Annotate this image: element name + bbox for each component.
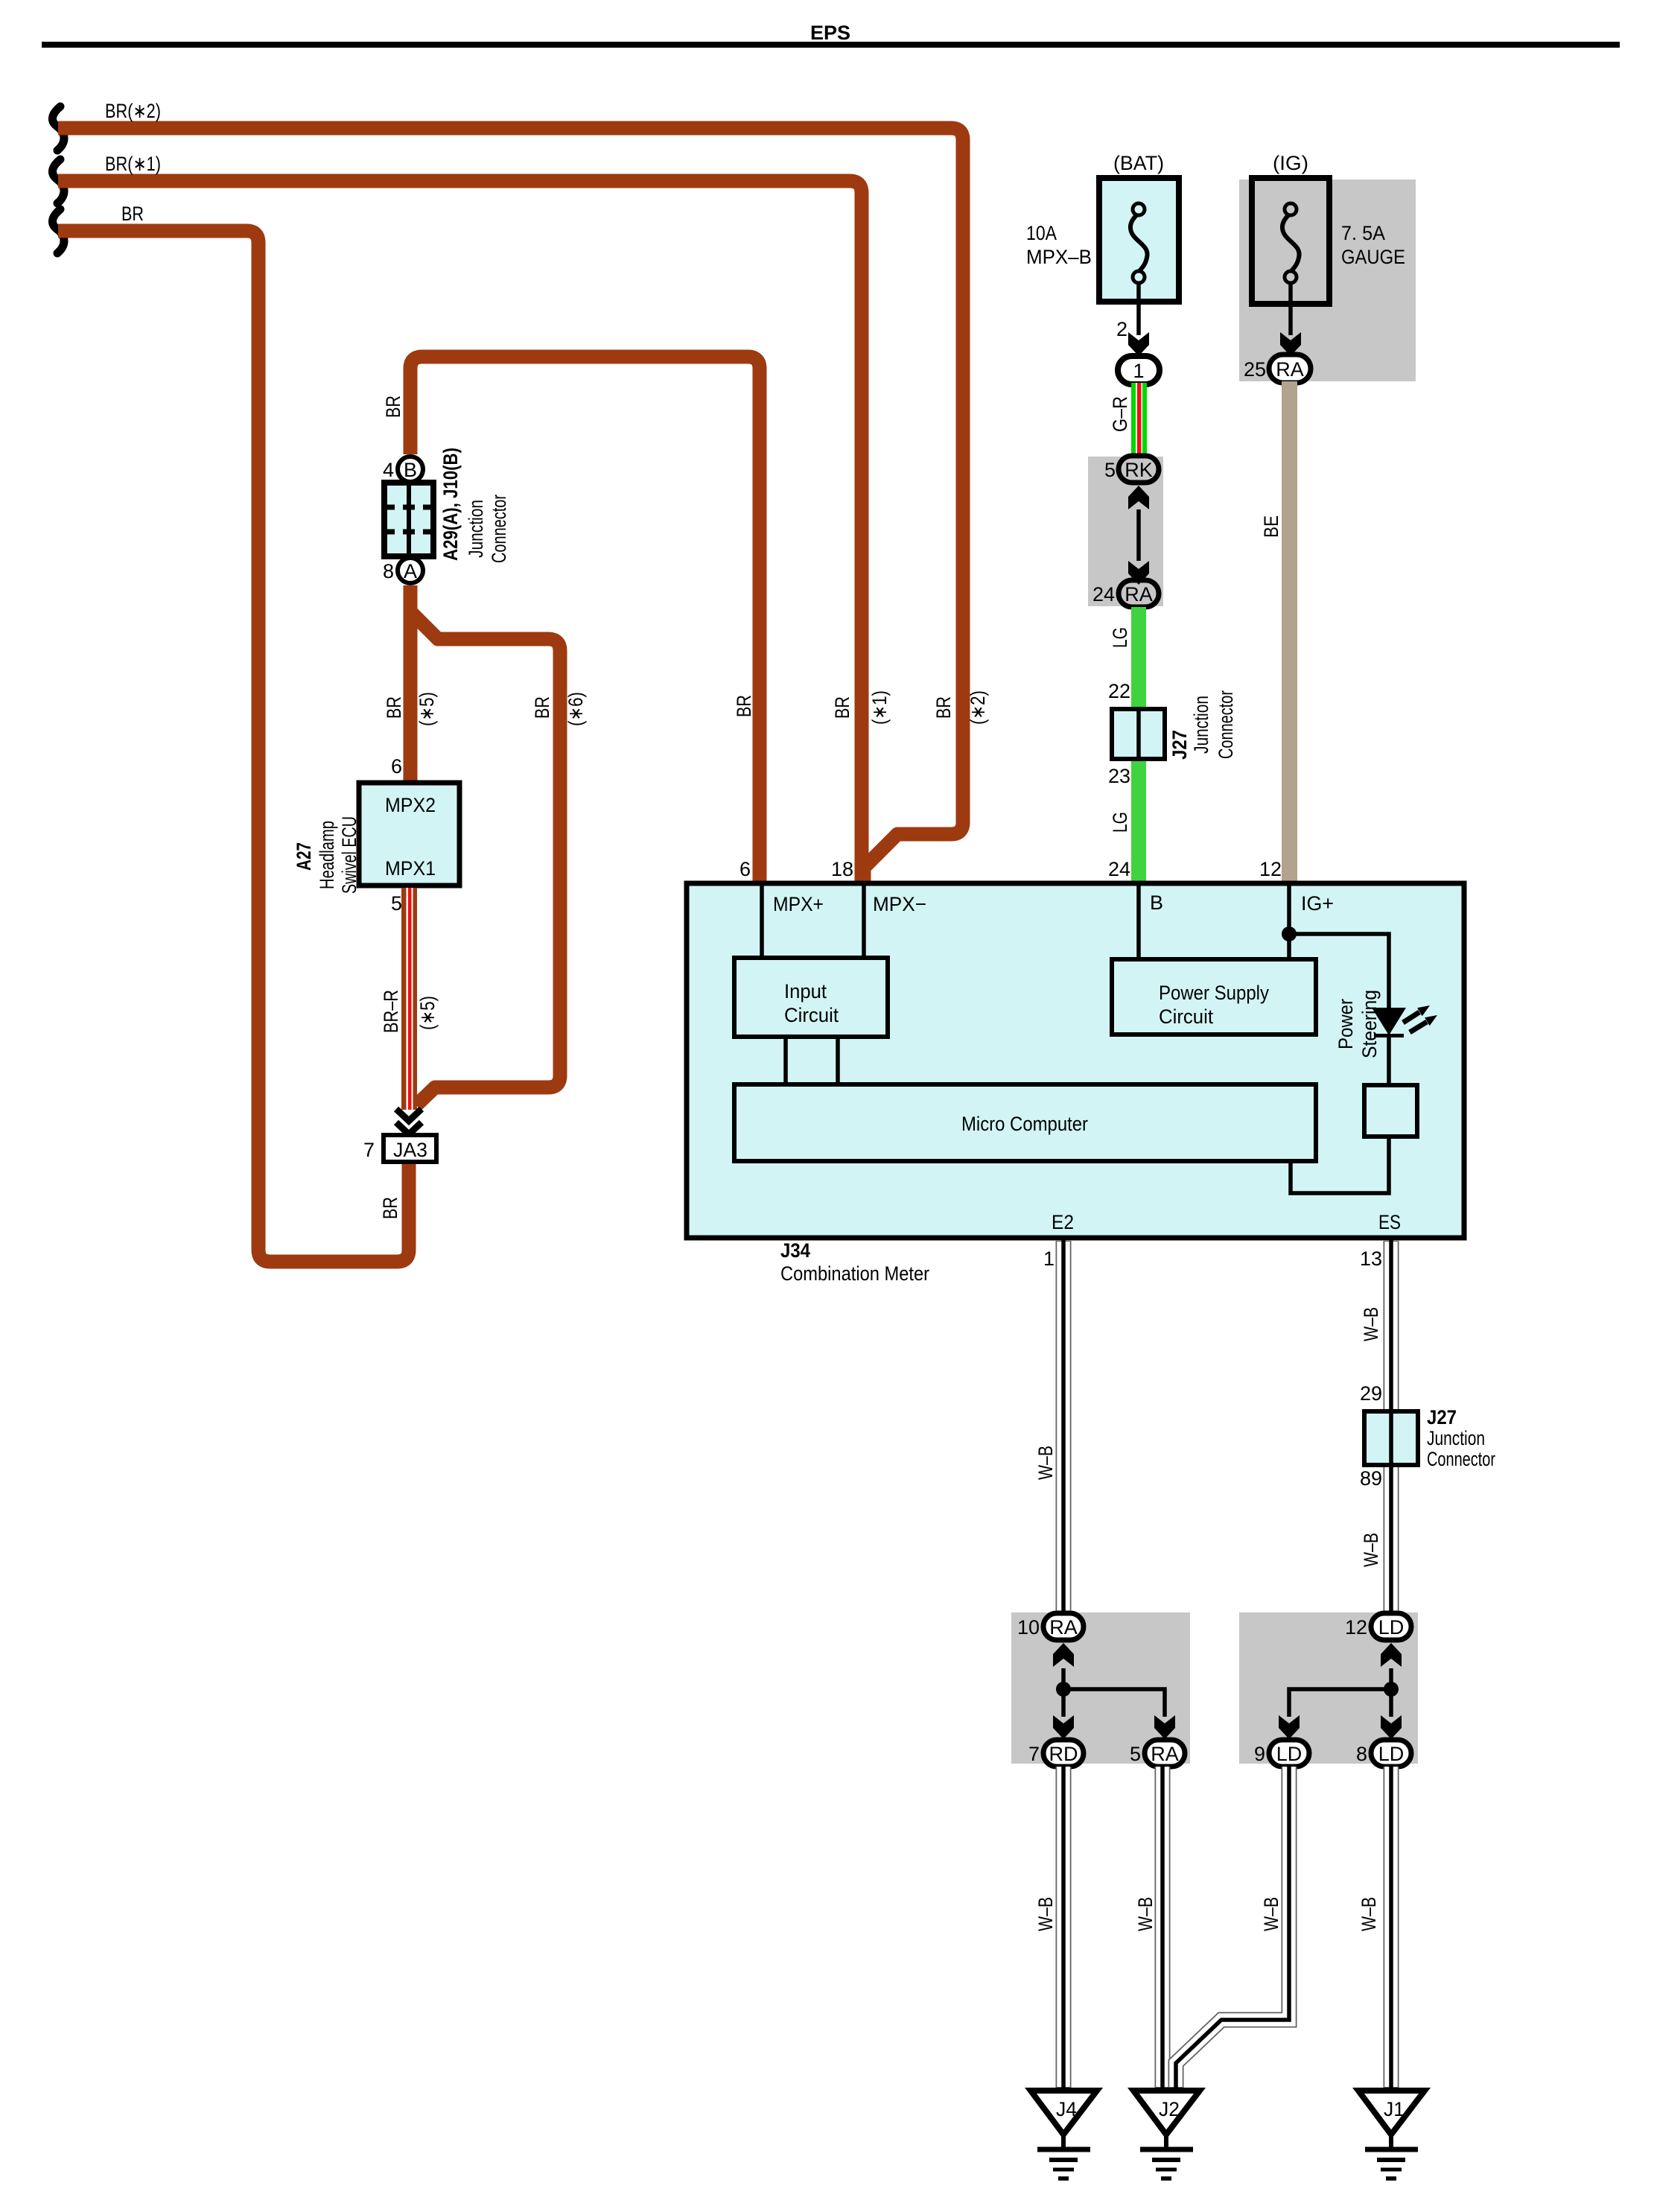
svg-text:9: 9 — [1254, 1743, 1265, 1765]
svg-text:B: B — [1150, 892, 1163, 914]
svg-text:BR(∗2): BR(∗2) — [105, 100, 161, 122]
wire W-B RD7 to ground J4 — [1056, 1767, 1072, 2091]
title rule — [42, 42, 1620, 48]
arrow into connector 1 — [1128, 332, 1149, 356]
wire IG+ pin down with junction node — [1287, 886, 1291, 959]
wire MPX+ pin to input circuit — [760, 886, 764, 958]
svg-text:(∗5): (∗5) — [416, 692, 438, 726]
svg-text:24: 24 — [1108, 858, 1130, 880]
svg-text:Power Supply: Power Supply — [1159, 982, 1269, 1004]
connector oval RA pin 5 — [1130, 1740, 1185, 1767]
svg-text:7: 7 — [1028, 1743, 1040, 1765]
svg-text:Connector: Connector — [1427, 1448, 1495, 1470]
svg-text:Swivel ECU: Swivel ECU — [338, 816, 360, 894]
svg-text:RA: RA — [1276, 358, 1304, 381]
svg-text:8: 8 — [1356, 1743, 1367, 1765]
svg-text:Junction: Junction — [1427, 1427, 1485, 1449]
svg-text:5: 5 — [1130, 1743, 1141, 1765]
wire resistor to micro computer — [1291, 1137, 1389, 1193]
wire BR (*6) branch loop — [411, 612, 560, 1105]
svg-text:BR: BR — [379, 1197, 401, 1219]
svg-text:Steering: Steering — [1358, 990, 1381, 1058]
svg-text:1: 1 — [1043, 1248, 1055, 1270]
gray background IG fuse — [1239, 179, 1416, 381]
svg-text:BR: BR — [121, 203, 144, 225]
junction connector A29(A) J10(B) box — [383, 483, 435, 556]
wire W-B LD9 jog to ground J2 — [1176, 1767, 1289, 2091]
svg-text:A29(A), J10(B): A29(A), J10(B) — [439, 448, 462, 561]
svg-text:RK: RK — [1125, 459, 1153, 481]
svg-text:(∗1): (∗1) — [868, 690, 891, 725]
svg-text:BR: BR — [531, 696, 553, 719]
wire B pin to power supply circuit — [1136, 886, 1141, 959]
svg-text:W–B: W–B — [1034, 1897, 1057, 1931]
svg-text:W–B: W–B — [1260, 1897, 1282, 1931]
svg-text:G–R: G–R — [1109, 396, 1131, 432]
input circuit box — [734, 958, 888, 1037]
svg-text:W–B: W–B — [1358, 1897, 1380, 1931]
wire node to LED branch — [1289, 934, 1389, 1009]
wire break symbol bottom — [52, 209, 64, 253]
wire BR from break down to JA3 pin 7 loop — [58, 231, 409, 1262]
wire MPX- pin to input circuit — [862, 886, 866, 958]
svg-text:MPX–B: MPX–B — [1026, 246, 1092, 268]
LED power steering indicator — [1372, 1005, 1437, 1037]
wires input circuit to micro computer — [783, 1037, 788, 1084]
svg-text:MPX1: MPX1 — [385, 857, 436, 880]
connector JA3 box pin 7 — [363, 1135, 436, 1162]
svg-text:22: 22 — [1108, 680, 1130, 702]
svg-text:BR(∗1): BR(∗1) — [105, 153, 161, 175]
svg-text:Junction: Junction — [1190, 696, 1212, 754]
wire RK to RA — [1136, 509, 1141, 561]
svg-text:W–B: W–B — [1360, 1307, 1382, 1341]
wire W-B from ES pin 13 to LD 12 — [1384, 1238, 1399, 1615]
arrow into RA 25 — [1280, 332, 1301, 356]
svg-text:BR: BR — [383, 696, 405, 719]
ground J1 — [1358, 2091, 1425, 2178]
svg-text:10A: 10A — [1026, 222, 1057, 244]
svg-text:Combination Meter: Combination Meter — [780, 1262, 929, 1285]
connector oval 1 — [1118, 356, 1160, 384]
wire fuse IG to RA — [1288, 283, 1293, 335]
gray background RK/RA connector — [1088, 457, 1163, 606]
svg-text:Junction: Junction — [465, 500, 487, 558]
connector oval RA pin 25 — [1244, 355, 1311, 383]
svg-text:12: 12 — [1259, 858, 1282, 880]
wire G-R — [1131, 383, 1147, 457]
junction connector J27 lower box — [1364, 1411, 1418, 1465]
wire BE from RA 25 to J34 pin 12 — [1282, 381, 1297, 885]
svg-text:A27: A27 — [293, 842, 315, 871]
wire node to RA5 branch — [1063, 1689, 1165, 1717]
svg-text:6: 6 — [391, 755, 402, 778]
svg-text:Circuit: Circuit — [1159, 1005, 1213, 1028]
gray background right relay block bottom — [1239, 1612, 1418, 1764]
svg-text:Connector: Connector — [488, 495, 510, 563]
node dot right relay — [1384, 1682, 1399, 1697]
wire BR from junction connector pin B to MPX+ pin 6 — [410, 357, 760, 883]
arrow down above LD 9 — [1279, 1715, 1300, 1739]
ground J2 — [1133, 2091, 1200, 2178]
connector oval LD pin 12 — [1345, 1613, 1411, 1640]
svg-text:EPS: EPS — [810, 22, 850, 44]
wire BR-R from A27 pin 5 to JA3 — [401, 888, 417, 1110]
svg-text:(∗5): (∗5) — [416, 996, 439, 1030]
svg-text:29: 29 — [1360, 1382, 1382, 1405]
svg-text:4: 4 — [383, 459, 394, 481]
svg-text:MPX+: MPX+ — [773, 893, 824, 915]
svg-text:18: 18 — [831, 858, 853, 880]
micro computer box — [734, 1084, 1316, 1161]
svg-text:W–B: W–B — [1360, 1533, 1382, 1567]
svg-text:JA3: JA3 — [393, 1139, 427, 1161]
wire break symbol top — [52, 107, 64, 150]
svg-text:BR: BR — [733, 695, 755, 717]
svg-text:RD: RD — [1049, 1743, 1078, 1765]
svg-text:LD: LD — [1378, 1743, 1405, 1765]
J34 combination meter box — [687, 883, 1464, 1238]
svg-text:Connector: Connector — [1215, 690, 1237, 759]
svg-text:LG: LG — [1109, 627, 1131, 648]
fuse 10A MPX-B box — [1099, 178, 1179, 302]
wire BR from junction connector pin A to A27 pin 6 — [404, 585, 418, 783]
svg-text:IG+: IG+ — [1301, 892, 1334, 915]
svg-text:E2: E2 — [1052, 1211, 1074, 1233]
svg-text:LD: LD — [1378, 1616, 1405, 1639]
wire node to LD9 branch — [1289, 1689, 1391, 1717]
svg-text:89: 89 — [1360, 1467, 1382, 1490]
svg-text:MPX2: MPX2 — [385, 794, 436, 816]
svg-text:MPX−: MPX− — [873, 893, 926, 915]
svg-text:25: 25 — [1244, 358, 1266, 381]
wire break symbol middle — [52, 159, 64, 203]
arrow up below LD 12 — [1381, 1643, 1402, 1667]
svg-text:RA: RA — [1125, 583, 1153, 606]
svg-text:(∗2): (∗2) — [967, 690, 989, 725]
svg-text:8: 8 — [383, 560, 394, 582]
pin B circle of junction connector — [383, 457, 423, 482]
arrow down above LD 8 — [1381, 1715, 1402, 1739]
wire W-B from E2 pin 1 to RA 10 — [1056, 1238, 1072, 1615]
svg-text:(BAT): (BAT) — [1113, 152, 1164, 174]
connector oval RA pin 24 — [1092, 580, 1159, 607]
svg-text:(IG): (IG) — [1273, 152, 1308, 174]
wire node to RD7 — [1061, 1689, 1066, 1717]
svg-text:RA: RA — [1151, 1743, 1179, 1765]
svg-text:23: 23 — [1108, 765, 1130, 787]
svg-text:J27: J27 — [1168, 730, 1191, 760]
svg-text:W–B: W–B — [1034, 1446, 1057, 1480]
svg-text:1: 1 — [1133, 360, 1144, 382]
pin A circle of junction connector — [383, 558, 423, 583]
node dot left relay — [1056, 1682, 1071, 1697]
svg-text:BR: BR — [382, 395, 404, 418]
svg-text:7. 5A: 7. 5A — [1341, 222, 1385, 244]
fuse 7.5A GAUGE box — [1252, 178, 1329, 304]
wire node to LD8 — [1389, 1689, 1393, 1717]
arrow down above RA 5 — [1154, 1715, 1175, 1739]
svg-text:12: 12 — [1345, 1616, 1367, 1639]
svg-text:LG: LG — [1109, 812, 1131, 833]
power supply circuit box — [1112, 959, 1316, 1035]
connector oval LD pin 9 — [1254, 1740, 1309, 1767]
resistor box — [1364, 1085, 1417, 1137]
svg-text:A: A — [404, 560, 417, 582]
wire fuse to connector 1 — [1136, 283, 1141, 335]
svg-text:24: 24 — [1092, 583, 1115, 606]
svg-text:J4: J4 — [1056, 2098, 1077, 2120]
connector oval RD pin 7 — [1028, 1740, 1084, 1767]
arrow down above RD 7 — [1053, 1715, 1074, 1739]
double chevron arrow into JA3 — [396, 1109, 422, 1134]
A27 headlamp swivel ECU box — [359, 783, 459, 886]
svg-text:Headlamp: Headlamp — [316, 821, 338, 889]
svg-text:BR: BR — [831, 696, 853, 719]
wire BR(*2) from break to MPX- pin 18 — [58, 128, 963, 883]
connector oval LD pin 8 — [1356, 1740, 1411, 1767]
svg-text:5: 5 — [391, 892, 402, 915]
svg-text:BE: BE — [1260, 515, 1282, 538]
svg-text:13: 13 — [1360, 1248, 1382, 1270]
svg-text:(∗6): (∗6) — [564, 692, 587, 726]
svg-text:Circuit: Circuit — [784, 1004, 839, 1026]
svg-text:BR: BR — [932, 696, 955, 719]
wire W-B RA5 to ground J2 — [1155, 1767, 1171, 2091]
ground J4 — [1031, 2091, 1097, 2178]
svg-text:W–B: W–B — [1134, 1897, 1157, 1931]
svg-text:6: 6 — [739, 858, 751, 880]
svg-text:BR–R: BR–R — [380, 990, 402, 1033]
arrow up below RA 10 — [1053, 1643, 1074, 1667]
wire RA10 to node — [1061, 1668, 1066, 1689]
svg-text:7: 7 — [363, 1139, 375, 1161]
svg-text:J27: J27 — [1427, 1406, 1457, 1428]
svg-text:RA: RA — [1049, 1616, 1078, 1639]
wire LD12 to node — [1389, 1668, 1393, 1689]
arrow up below RK — [1128, 486, 1149, 509]
arrow down above RA — [1128, 561, 1149, 585]
svg-text:B: B — [404, 459, 417, 481]
svg-text:J34: J34 — [780, 1239, 810, 1262]
svg-text:LD: LD — [1276, 1743, 1302, 1765]
svg-text:ES: ES — [1378, 1211, 1401, 1233]
wire W-B LD8 to ground J1 — [1384, 1767, 1399, 2091]
wire LED to resistor box — [1387, 1035, 1391, 1085]
svg-text:Micro Computer: Micro Computer — [961, 1113, 1088, 1135]
svg-text:Input: Input — [784, 980, 827, 1002]
svg-text:J1: J1 — [1384, 2098, 1405, 2120]
svg-text:J2: J2 — [1159, 2098, 1180, 2120]
connector oval RK pin 5 — [1104, 456, 1159, 483]
junction connector J27 box — [1112, 709, 1165, 759]
svg-text:5: 5 — [1104, 459, 1116, 481]
connector oval RA pin 10 — [1017, 1613, 1084, 1640]
gray background left relay block bottom — [1011, 1612, 1190, 1764]
svg-text:10: 10 — [1017, 1616, 1040, 1639]
svg-text:2: 2 — [1116, 318, 1127, 340]
svg-text:Power: Power — [1335, 999, 1357, 1049]
svg-text:GAUGE: GAUGE — [1341, 246, 1405, 268]
wire LG from RA to J34 pin 24 — [1131, 607, 1146, 885]
wire BR(*1) from break to MPX- pin 18 — [58, 181, 862, 883]
